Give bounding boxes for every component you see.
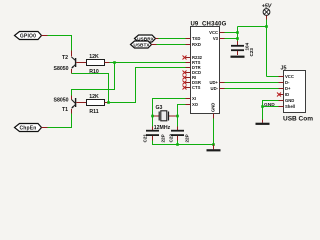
resistor R11 12K (87, 94, 109, 115)
svg-text:12K: 12K (89, 54, 99, 60)
svg-text:C21: C21 (143, 134, 148, 143)
wire R10 to RTS pin (110, 62, 186, 64)
capacitor C22 22P (169, 127, 190, 143)
svg-text:S8050: S8050 (54, 66, 69, 72)
port ChpEn (15, 124, 48, 132)
svg-text:12K: 12K (89, 94, 99, 100)
wire V3 pin to rail (225, 38, 238, 40)
wire USBRX to TXD pin (159, 38, 186, 40)
svg-text:S8050: S8050 (54, 98, 69, 104)
wire +5V rail vertical (266, 20, 268, 77)
wire DTR junction to DTR pin (109, 68, 186, 103)
wire RTS junction down to T1 collector (72, 63, 115, 96)
transistor T1 (54, 96, 87, 114)
wire IC GND to rail (213, 119, 215, 145)
wire UD- to D+ (225, 88, 279, 90)
crystal G3 12MHz (153, 105, 178, 131)
pin VCC (209, 30, 224, 35)
wire USBTX to RXD pin (157, 44, 186, 46)
pin J5 ID (no connect) (277, 92, 289, 97)
node RTS junction (113, 61, 116, 64)
node rail-GND junction (212, 143, 215, 146)
ground (under C23) (231, 56, 245, 58)
wire J5 GND to ground (263, 101, 279, 120)
node C22 rail junction (176, 143, 179, 146)
svg-text:TXD: TXD (192, 36, 200, 41)
wire ground rail (153, 141, 214, 145)
svg-text:J5: J5 (281, 66, 287, 72)
pin V3 (213, 36, 225, 41)
capacitor C23 104 (231, 41, 254, 57)
svg-text:VCC: VCC (209, 30, 218, 35)
svg-text:RXD: RXD (192, 42, 201, 47)
svg-text:D+: D+ (285, 86, 291, 91)
svg-text:T1: T1 (62, 107, 68, 113)
svg-text:22P: 22P (161, 134, 166, 142)
port USBTX (131, 41, 157, 49)
port GPIO0 (15, 32, 48, 40)
power +5V flag (262, 4, 272, 20)
svg-text:C23: C23 (249, 48, 254, 57)
wire GPIO0 to T2 collector (48, 36, 72, 51)
svg-text:U9: U9 (191, 22, 199, 28)
pin XO (186, 102, 199, 107)
svg-text:R10: R10 (89, 69, 99, 75)
svg-text:R11: R11 (89, 109, 98, 115)
svg-text:USBTX: USBTX (133, 43, 150, 49)
pin CTS (no connect) (183, 85, 201, 90)
svg-text:GND: GND (211, 103, 216, 112)
connector J5 USB Com (281, 66, 314, 123)
ground (under J5) (256, 120, 270, 124)
svg-text:GND: GND (285, 98, 294, 103)
node XI-crystal junction (151, 115, 154, 118)
pin RTS (186, 60, 201, 65)
capacitor C21 22P (143, 127, 166, 143)
pin GND (bottom) (211, 103, 216, 119)
port USBRX (135, 35, 159, 43)
pin TXD (186, 36, 201, 41)
svg-text:CTS: CTS (192, 85, 201, 90)
svg-text:V3: V3 (213, 36, 219, 41)
wire T2 emitter to DTR junction (72, 74, 109, 103)
transistor T2 (54, 51, 87, 74)
svg-text:GPIO0: GPIO0 (20, 34, 36, 40)
node VCC junction (236, 31, 239, 34)
wire rail to J5 VCC (267, 76, 279, 78)
pin J5 GND (279, 98, 295, 103)
wire VCC vertical to C23 (237, 27, 239, 42)
svg-text:C22: C22 (169, 134, 174, 143)
node DTR junction (107, 101, 110, 104)
op IC U9 CH340G body (191, 22, 227, 114)
svg-text:G3: G3 (156, 105, 163, 111)
svg-text:22P: 22P (185, 134, 190, 142)
pin J5 D+ (279, 86, 292, 91)
wire XO to crystal (178, 105, 186, 127)
svg-text:XI: XI (192, 96, 196, 101)
pin XI (186, 96, 196, 101)
svg-text:Shell: Shell (285, 104, 295, 109)
pin DSR (no connect) (183, 80, 201, 85)
pin UD+ (210, 80, 225, 85)
pin UD- (211, 86, 225, 91)
node +5V rail junction (265, 25, 268, 28)
svg-text:XO: XO (192, 102, 199, 107)
wire ChpEn to T1 emitter (48, 114, 72, 128)
pin J5 Shell (279, 104, 296, 109)
pin DTR (186, 65, 201, 70)
pin R232 (no connect) (183, 55, 203, 60)
svg-text:GND: GND (264, 102, 275, 108)
svg-text:UD-: UD- (211, 86, 219, 91)
ground (bottom middle) (207, 145, 221, 151)
svg-text:T2: T2 (62, 55, 68, 61)
svg-text:CH340G: CH340G (202, 22, 227, 28)
svg-text:ID: ID (285, 92, 289, 97)
node V3 junction (236, 37, 239, 40)
pin J5 VCC (279, 74, 294, 79)
pin DCD (no connect) (183, 70, 202, 75)
node XO-crystal junction (176, 115, 179, 118)
pin J5 D- (279, 80, 291, 85)
pin RXD (186, 42, 201, 47)
wire XI to crystal (153, 99, 186, 127)
resistor R10 12K (87, 54, 110, 75)
svg-text:UD+: UD+ (210, 80, 219, 85)
wire UD+ to D- (225, 82, 279, 84)
wire VCC top run (238, 26, 267, 28)
node shell junction (261, 105, 264, 108)
svg-text:VCC: VCC (285, 74, 294, 79)
svg-text:ChpEn: ChpEn (19, 126, 36, 132)
wire VCC pin to rail (225, 32, 238, 34)
pin RI (no connect) (183, 75, 197, 80)
svg-text:USB Com: USB Com (283, 116, 313, 123)
svg-text:D-: D- (285, 80, 290, 85)
